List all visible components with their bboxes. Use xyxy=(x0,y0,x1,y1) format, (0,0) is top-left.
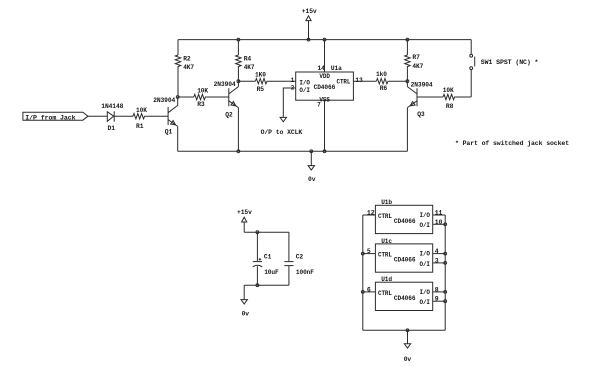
resistor R6 xyxy=(353,80,376,82)
node Q1 collector junction xyxy=(176,96,179,99)
svg-text:CD4066: CD4066 xyxy=(394,218,416,225)
svg-text:4K7: 4K7 xyxy=(244,64,255,71)
wire Q2 collector up xyxy=(237,81,239,86)
resistor R8 xyxy=(443,94,455,99)
node pin4 bus junction xyxy=(444,252,447,255)
wire +15v top rail xyxy=(178,39,471,41)
svg-text:U1d: U1d xyxy=(381,276,392,283)
svg-text:O/P to XCLK: O/P to XCLK xyxy=(261,129,303,136)
node pin14 rail junction xyxy=(323,38,326,41)
wire pin 12 U1b xyxy=(363,214,376,216)
svg-text:1N4148: 1N4148 xyxy=(101,103,123,110)
svg-text:10K: 10K xyxy=(197,87,208,94)
wire pin 8 U1d xyxy=(433,291,446,293)
wire pin 4 U1c xyxy=(433,253,446,255)
svg-text:1k0: 1k0 xyxy=(376,71,387,78)
transistor Q1 2N3904 xyxy=(168,105,178,126)
svg-text:C1: C1 xyxy=(264,253,272,260)
node R7 top rail junction xyxy=(406,38,409,41)
svg-text:VDD: VDD xyxy=(319,73,330,80)
wire cap top xyxy=(244,231,289,233)
svg-text:1: 1 xyxy=(291,77,295,84)
svg-text:CTRL: CTRL xyxy=(378,213,392,220)
wire pin 10 U1b xyxy=(433,223,446,225)
svg-text:R8: R8 xyxy=(446,103,454,110)
svg-text:R7: R7 xyxy=(412,54,420,61)
diode D1 xyxy=(107,112,113,122)
IC U1d CD4066 xyxy=(375,282,432,310)
svg-text:CTRL: CTRL xyxy=(378,290,392,297)
node pin8 bus junction xyxy=(444,291,447,294)
node pin9 bus junction xyxy=(444,300,447,303)
IC U1c CD4066 xyxy=(375,244,432,272)
wire pin 9 U1d xyxy=(433,300,446,302)
svg-text:D1: D1 xyxy=(108,125,116,132)
svg-text:7: 7 xyxy=(317,102,321,109)
wire pin 6 U1d xyxy=(363,291,376,293)
switch SW1 SPST (NC) xyxy=(470,40,472,55)
svg-text:O/I: O/I xyxy=(420,222,431,229)
svg-text:Q3: Q3 xyxy=(417,111,425,118)
wire input tag to D1 xyxy=(88,115,107,117)
svg-text:CTRL: CTRL xyxy=(337,79,351,86)
wire pin 3 U1c xyxy=(433,262,446,264)
node I/P from Jack input tag xyxy=(23,112,88,120)
svg-text:12: 12 xyxy=(367,210,375,217)
ground 0v U1 block xyxy=(407,330,409,344)
svg-text:100nF: 100nF xyxy=(296,269,314,276)
svg-text:11: 11 xyxy=(435,210,443,217)
svg-text:2N3904: 2N3904 xyxy=(153,97,175,104)
wire R8 to SW1 xyxy=(455,96,471,98)
wire right bus U1 block xyxy=(444,215,446,330)
wire R1 to Q1 base xyxy=(145,115,168,117)
node pin7 rail junction xyxy=(323,150,326,153)
svg-text:R5: R5 xyxy=(257,86,265,93)
output O/P to XCLK xyxy=(283,88,295,117)
wire U1a pin 7 to 0v rail xyxy=(324,100,326,151)
svg-text:1K0: 1K0 xyxy=(255,72,266,79)
wire U1 block bottom rail xyxy=(363,329,445,331)
svg-text:13: 13 xyxy=(355,77,363,84)
node pin3 bus junction xyxy=(444,262,447,265)
power arrow +15v xyxy=(306,16,311,21)
svg-text:U1b: U1b xyxy=(381,199,392,206)
svg-text:4K7: 4K7 xyxy=(183,64,194,71)
svg-text:O/I: O/I xyxy=(420,261,431,268)
node pin10 bus junction xyxy=(444,223,447,226)
wire left bus U1 block xyxy=(362,215,364,330)
wire R3 to Q2 base xyxy=(206,96,229,98)
wire R6 to Q3 xyxy=(389,80,408,82)
resistor R7 xyxy=(406,40,408,55)
svg-text:I/O: I/O xyxy=(420,289,431,296)
wire Q3 collector up xyxy=(406,81,408,86)
svg-text:10: 10 xyxy=(435,219,443,226)
node C1 bottom junction xyxy=(256,284,259,287)
label plus C1 xyxy=(259,258,261,260)
svg-text:R6: R6 xyxy=(380,85,388,92)
svg-text:2N3904: 2N3904 xyxy=(214,81,236,88)
svg-text:I/O: I/O xyxy=(299,79,310,86)
wire Q1 collector up xyxy=(177,97,179,105)
node pin6 bus junction xyxy=(361,291,364,294)
svg-text:3: 3 xyxy=(435,257,439,264)
wire Q1 emitter down xyxy=(177,126,179,151)
node +15v rail junction xyxy=(307,38,310,41)
svg-text:SW1 SPST (NC) *: SW1 SPST (NC) * xyxy=(481,59,539,66)
svg-text:9: 9 xyxy=(435,296,439,303)
ground triangle xyxy=(308,166,314,170)
wire pin 5 U1c xyxy=(363,253,376,255)
node pin5 bus junction xyxy=(361,252,364,255)
wire pin 11 U1b xyxy=(433,214,446,216)
svg-text:CD4066: CD4066 xyxy=(314,84,336,91)
resistor R2 xyxy=(177,40,179,55)
node R4 top rail junction xyxy=(237,38,240,41)
svg-text:O/I: O/I xyxy=(299,87,310,94)
node C1 top junction xyxy=(256,231,259,234)
svg-text:+15v: +15v xyxy=(237,209,252,216)
node Q2 collector junction xyxy=(237,80,240,83)
ground 0v main xyxy=(310,151,312,165)
svg-text:14: 14 xyxy=(317,65,325,72)
resistor R3 xyxy=(178,96,194,98)
svg-text:8: 8 xyxy=(435,286,439,293)
resistor R1 xyxy=(133,114,145,119)
svg-text:CD4066: CD4066 xyxy=(394,257,416,264)
ground triangle decoupling xyxy=(241,300,247,304)
svg-text:I/O: I/O xyxy=(420,212,431,219)
svg-text:R2: R2 xyxy=(183,56,191,63)
svg-text:10uF: 10uF xyxy=(264,269,279,276)
svg-text:0v: 0v xyxy=(242,311,250,318)
wire Q3 emitter down xyxy=(406,108,408,152)
svg-text:* Part of switched jack socket: * Part of switched jack socket xyxy=(455,140,569,147)
capacitor C2 100nF xyxy=(288,232,290,261)
svg-text:10K: 10K xyxy=(443,87,454,94)
resistor R5 xyxy=(238,80,255,82)
svg-text:5: 5 xyxy=(367,248,371,255)
svg-text:CTRL: CTRL xyxy=(378,252,392,259)
IC U1a CD4066 xyxy=(296,72,354,100)
svg-text:Q1: Q1 xyxy=(165,129,173,136)
svg-text:I/O: I/O xyxy=(420,251,431,258)
ground 0v decoupling xyxy=(243,285,245,299)
svg-text:0v: 0v xyxy=(308,176,316,183)
output arrow xyxy=(280,117,286,121)
IC U1b CD4066 xyxy=(375,205,432,233)
svg-text:2N3904: 2N3904 xyxy=(411,82,433,89)
node Q2 emitter to 0v rail xyxy=(237,150,240,153)
node Q3 collector junction xyxy=(406,80,409,83)
ground triangle U1 block xyxy=(404,344,410,348)
svg-text:10K: 10K xyxy=(136,107,147,114)
capacitor C1 10uF xyxy=(256,232,258,261)
svg-text:U1c: U1c xyxy=(381,238,392,245)
svg-text:O/I: O/I xyxy=(420,299,431,306)
transistor Q3 2N3904 xyxy=(407,87,417,108)
wire R5 to U1a pin 1 xyxy=(268,80,296,82)
power arrow +15v decoupling xyxy=(242,217,247,222)
svg-text:R4: R4 xyxy=(244,56,252,63)
wire Q2 emitter down xyxy=(237,108,239,152)
node U1 ground junction xyxy=(406,329,409,332)
svg-text:+15v: +15v xyxy=(302,8,317,15)
resistor R4 xyxy=(237,40,239,55)
wire D1 to R1 xyxy=(114,115,133,117)
svg-text:C2: C2 xyxy=(296,253,304,260)
wire cap bottom xyxy=(244,284,289,286)
svg-text:Q2: Q2 xyxy=(225,112,233,119)
node ground junction xyxy=(310,150,313,153)
svg-text:6: 6 xyxy=(367,286,371,293)
svg-text:I/P from Jack: I/P from Jack xyxy=(25,114,75,121)
svg-text:R1: R1 xyxy=(136,123,144,130)
svg-text:CD4066: CD4066 xyxy=(394,295,416,302)
svg-text:0v: 0v xyxy=(404,356,412,363)
wire 0v bottom rail xyxy=(178,150,408,152)
wire U1a pin 14 to +15v rail xyxy=(324,40,326,72)
svg-text:4: 4 xyxy=(435,248,439,255)
svg-text:R3: R3 xyxy=(197,101,205,108)
svg-text:4K7: 4K7 xyxy=(412,63,423,70)
svg-text:U1a: U1a xyxy=(331,65,342,72)
wire Q3 base to R8 xyxy=(417,96,443,98)
transistor Q2 2N3904 xyxy=(229,87,239,108)
